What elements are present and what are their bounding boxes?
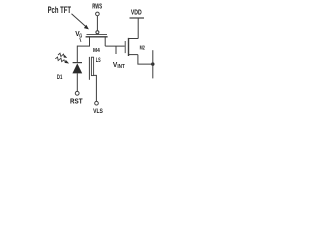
svg-text:LS: LS — [96, 58, 101, 64]
node V_INT label — [113, 62, 125, 70]
node V_G label — [75, 31, 82, 42]
wire M2 source to output column — [138, 55, 153, 65]
wire RWS gate lead — [96, 16, 98, 31]
svg-text:INT: INT — [117, 64, 124, 70]
wire D1 anode to RST — [76, 73, 78, 91]
svg-text:Pch TFT: Pch TFT — [48, 5, 72, 15]
terminal RST — [75, 91, 79, 95]
svg-text:M4: M4 — [93, 48, 100, 54]
svg-text:VLS: VLS — [93, 108, 103, 115]
svg-text:RST: RST — [70, 97, 83, 106]
light arrows into D1 — [55, 53, 70, 64]
sensor LS (left electrode line) — [88, 57, 90, 80]
junction dot — [151, 62, 154, 65]
terminal VLS — [95, 101, 99, 105]
transistor M4 (Pch TFT) — [86, 31, 108, 54]
svg-text:VDD: VDD — [131, 7, 142, 16]
photodiode D1 — [57, 63, 82, 81]
wire M4 drain to M2 gate / node V_INT — [105, 45, 125, 47]
annotation arrow to M4 — [72, 14, 89, 30]
svg-text:D1: D1 — [57, 74, 63, 81]
svg-text:RWS: RWS — [92, 2, 102, 11]
transistor M2 — [125, 38, 145, 56]
svg-text:M2: M2 — [140, 46, 145, 52]
wire LS to VLS — [94, 75, 97, 101]
wire output column line — [152, 50, 154, 78]
sensor LS (body) — [91, 57, 93, 75]
wire V_G node (M4 source to photodiode) — [77, 45, 90, 47]
power VDD — [130, 7, 145, 38]
